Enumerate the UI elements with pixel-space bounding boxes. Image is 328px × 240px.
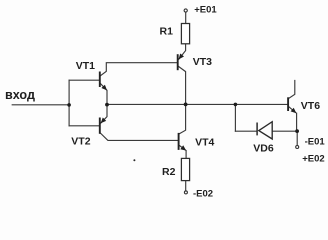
node collectors junction xyxy=(184,103,188,107)
wire VD6 left xyxy=(235,130,256,132)
wire branch down to VD6 xyxy=(234,104,236,131)
resistor R1 xyxy=(181,24,189,44)
svg-text:VT2: VT2 xyxy=(71,135,90,147)
wire input horizontal xyxy=(12,104,69,106)
wire VT2 emitter lead xyxy=(101,104,107,123)
arrow VT3 emitter (PNP in) xyxy=(179,54,184,60)
node input junction xyxy=(67,103,71,107)
wire R2 to terminal xyxy=(185,181,187,191)
arrow VT2 emitter (PNP in) xyxy=(101,118,107,124)
transistor VT4 base bar xyxy=(178,133,180,150)
wire VT4 emitter lead xyxy=(179,146,186,159)
svg-text:R2: R2 xyxy=(162,166,176,178)
wire +E01 terminal to R1 xyxy=(185,12,187,24)
terminal -E02 xyxy=(184,191,187,194)
node VD6 branch junction xyxy=(234,103,238,107)
resistor R2 xyxy=(181,158,189,180)
wire VT2 collector to VT4 base xyxy=(101,133,178,140)
terminal output xyxy=(296,146,299,149)
wire VT1 emitter lead xyxy=(100,83,107,104)
svg-text:-E01: -E01 xyxy=(305,136,326,147)
svg-text:вход: вход xyxy=(5,88,35,102)
diode VD6 triangle xyxy=(259,122,272,139)
arrow VT4 emitter (NPN out) xyxy=(180,145,186,150)
wire VT2 base xyxy=(69,125,99,127)
svg-text:-E02: -E02 xyxy=(193,188,213,199)
diode VD6 cathode bar xyxy=(256,123,258,136)
transistor VT3 base bar xyxy=(177,54,179,70)
transistor VT1 base bar xyxy=(99,72,101,88)
wire base bus vertical xyxy=(68,80,70,126)
wire VT4 collector xyxy=(179,104,185,133)
svg-text:VT6: VT6 xyxy=(301,100,320,112)
stray dot xyxy=(133,159,135,161)
svg-text:+E02: +E02 xyxy=(302,153,324,164)
svg-text:+E01: +E01 xyxy=(194,4,217,15)
wire VT6 collector xyxy=(289,81,295,99)
wire output vertical xyxy=(296,131,298,145)
wire VT3 emitter lead xyxy=(179,44,186,59)
wire VT1 base xyxy=(69,79,99,81)
transistor VT2 base bar xyxy=(99,118,101,134)
arrow VT1 emitter (NPN out) xyxy=(101,85,107,91)
wire VT3 collector xyxy=(178,66,185,104)
svg-text:R1: R1 xyxy=(160,26,174,38)
wire VT6 emitter lead xyxy=(289,107,297,132)
transistor VT6 base bar xyxy=(287,97,289,111)
arrow VT6 emitter (NPN out) xyxy=(291,108,297,114)
svg-text:VD6: VD6 xyxy=(253,143,274,155)
svg-text:VT3: VT3 xyxy=(193,56,212,68)
wire VT1 collector to VT3 base xyxy=(100,63,177,76)
svg-text:VT4: VT4 xyxy=(195,136,214,148)
wire center emitter line xyxy=(107,103,287,105)
wire VD6 right to emitter node xyxy=(272,130,297,132)
node VT6 emitter junction xyxy=(295,129,299,133)
node emitters junction xyxy=(105,103,109,107)
svg-text:VT1: VT1 xyxy=(76,60,95,72)
terminal +E01 xyxy=(184,9,187,12)
